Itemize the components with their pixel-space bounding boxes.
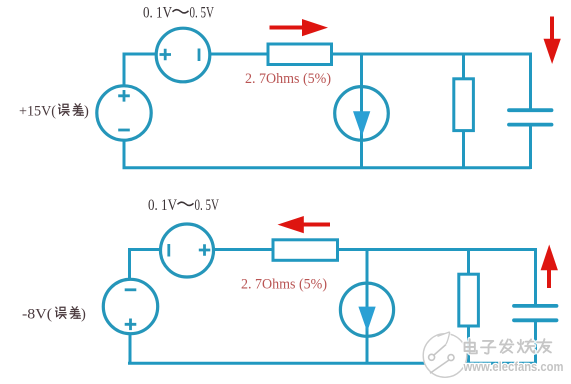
- capacitor C1 bottom plate: [509, 123, 552, 127]
- V1 minus terminal: [118, 129, 130, 132]
- wire: V1 bottom lead down to bottom rail: [123, 140, 126, 169]
- svg-text:): ): [84, 104, 89, 120]
- svg-text:+15V(: +15V(: [19, 104, 56, 120]
- svg-text:0. 5V: 0. 5V: [190, 5, 215, 22]
- wire: bottom rail circuit 2: [128, 362, 536, 365]
- svg-text:): ): [81, 307, 86, 323]
- resistor R4 (load) body: [459, 274, 479, 326]
- voltage source V1 (+15V) circle: [97, 86, 151, 140]
- wire: top-left corner vertical (V3 top lead): [128, 248, 131, 280]
- wire: current source I1 branch vertical: [360, 53, 363, 170]
- wire: load resistor R2 branch bottom lead: [462, 131, 465, 170]
- wire: bottom rail circuit 1: [123, 166, 531, 169]
- current source I1 arrowhead (downward): [353, 111, 370, 136]
- V3 minus terminal: [125, 288, 137, 291]
- watermark text 电子发烧友 (gray pass): [465, 339, 552, 354]
- label -8V(误差): [22, 307, 86, 323]
- wire: load resistor R2 branch top lead: [462, 53, 465, 80]
- current source I2 arrowhead (downward): [358, 307, 375, 332]
- voltage source V2 (0.1V~0.5V) circle: [156, 28, 210, 82]
- wire: right rail bottom (capacitor C2 to bottom rail): [534, 320, 537, 364]
- watermark logo disc: [423, 332, 467, 378]
- wire: top rail segment from left corner to V4 left: [128, 248, 161, 251]
- svg-text:0. 5V: 0. 5V: [195, 197, 220, 214]
- wire: top rail segment V4 right to R3 left: [214, 248, 274, 251]
- label +15V(误差): [19, 104, 89, 120]
- resistor R1 (2.7 Ohms) body: [268, 44, 332, 65]
- wire: top rail segment V2 right to R1 left: [210, 53, 269, 56]
- wire: top rail segment R3 right to right corner: [338, 248, 536, 251]
- resistor R2 (load) body: [454, 79, 474, 131]
- red current arrow (downward) at top right: [544, 17, 561, 65]
- wire: V3 bottom lead down to bottom rail: [129, 334, 132, 365]
- V4 minus terminal (vertical bar): [167, 244, 170, 257]
- wire: load resistor R4 branch top lead: [467, 248, 470, 275]
- svg-text:2. 7Ohms (5%): 2. 7Ohms (5%): [245, 71, 331, 87]
- red current arrow (rightward) above R1: [270, 19, 329, 36]
- wire: top-left corner vertical (V1 top lead): [123, 53, 126, 87]
- wire: current source I2 branch vertical: [366, 248, 369, 364]
- wire: right rail top (corner to capacitor C2): [534, 248, 537, 306]
- wire: top rail segment R1 right to right corner: [332, 53, 531, 56]
- capacitor C2 top plate: [514, 304, 557, 308]
- V4 plus terminal: [199, 244, 211, 255]
- current source I2 circle: [340, 283, 393, 336]
- voltage source V3 (-8V) circle: [103, 279, 157, 333]
- wire: right rail top (corner to capacitor C1): [529, 53, 532, 111]
- wire: right rail bottom (capacitor C1 to bottom rail): [529, 125, 532, 169]
- wire: top rail segment from left corner to V2 left: [123, 53, 157, 56]
- svg-text:0. 1V: 0. 1V: [148, 197, 178, 214]
- capacitor C1 top plate: [509, 108, 552, 112]
- current source I1 circle: [335, 87, 389, 141]
- resistor R3 (2.7 Ohms) body: [273, 240, 338, 260]
- red current arrow (leftward) above R3: [278, 216, 331, 233]
- svg-text:2. 7Ohms (5%): 2. 7Ohms (5%): [241, 277, 327, 293]
- red current arrow (upward) at right: [541, 245, 558, 289]
- capacitor C2 bottom plate: [514, 318, 557, 322]
- V2 minus terminal (vertical bar): [198, 49, 201, 62]
- svg-text:0. 1V: 0. 1V: [143, 5, 173, 22]
- V1 plus terminal: [118, 90, 130, 102]
- watermark text 电子发烧友 (white halo pass): [465, 339, 552, 354]
- svg-text:www.elecfans.com: www.elecfans.com: [463, 360, 564, 374]
- V3 plus terminal: [125, 319, 137, 331]
- svg-text:-8V(: -8V(: [22, 307, 52, 323]
- V2 plus terminal: [160, 49, 172, 60]
- wire: load resistor R4 branch bottom lead: [467, 326, 470, 364]
- voltage source V4 (0.1V~0.5V) circle: [161, 224, 214, 277]
